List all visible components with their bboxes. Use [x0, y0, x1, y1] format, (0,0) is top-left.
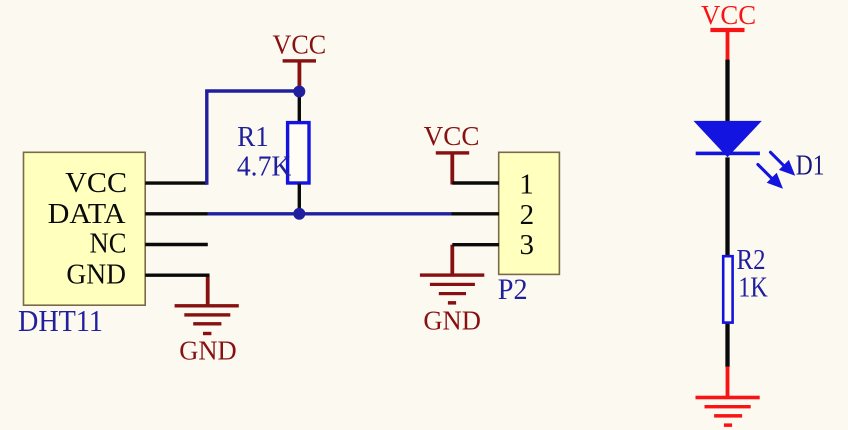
- power port VCC (P2, dark red): [424, 121, 480, 184]
- svg-text:D1: D1: [796, 150, 825, 182]
- svg-text:GND: GND: [179, 336, 237, 366]
- svg-text:GND: GND: [423, 305, 481, 335]
- svg-text:P2: P2: [498, 273, 528, 306]
- pin wire NC (DHT11 pin 3): [145, 243, 208, 246]
- DHT11 box: [24, 152, 146, 305]
- LED D1 triangle: [694, 121, 762, 157]
- junction node A: [293, 86, 305, 98]
- P2 box: [499, 152, 560, 274]
- svg-text:DHT11: DHT11: [18, 304, 103, 338]
- svg-text:VCC: VCC: [65, 167, 127, 199]
- svg-text:GND: GND: [66, 258, 126, 290]
- pin wire DATA (DHT11 pin 2): [145, 212, 208, 215]
- pin wire P2-2: [452, 212, 500, 215]
- pin wire GND (DHT11 pin 4): [145, 274, 209, 277]
- resistor R2: [723, 256, 732, 322]
- svg-text:NC: NC: [90, 228, 127, 260]
- LED arrow 1: [771, 152, 796, 176]
- wire LED cathode to R2: [725, 157, 729, 256]
- power port VCC (left, dark red): [273, 29, 327, 87]
- wire VCC to LED anode: [725, 60, 729, 122]
- ground (left, dark red): [175, 275, 239, 365]
- wire R1 bottom to data junction: [298, 184, 301, 214]
- svg-text:2: 2: [520, 199, 535, 231]
- wire R2 to ground: [725, 324, 729, 367]
- svg-text:4.7K: 4.7K: [237, 150, 291, 182]
- ground (right, bright red): [696, 367, 760, 427]
- resistor R1: [288, 123, 309, 183]
- LED D1 cathode bar: [696, 152, 760, 156]
- svg-text:1: 1: [519, 169, 534, 201]
- ground (P2, dark red): [420, 245, 484, 336]
- wire junction to R1 top: [298, 92, 301, 123]
- svg-text:R1: R1: [237, 121, 268, 153]
- pin wire P2-3: [452, 243, 499, 246]
- junction node DATA: [293, 208, 305, 220]
- svg-text:1K: 1K: [738, 272, 768, 304]
- pin wire P2-1: [452, 181, 499, 184]
- svg-text:DATA: DATA: [48, 198, 126, 230]
- svg-text:3: 3: [519, 229, 534, 261]
- pin wire VCC (DHT11 pin 1): [145, 181, 207, 184]
- svg-text:VCC: VCC: [273, 29, 327, 59]
- LED arrow 2: [758, 165, 783, 189]
- wire blue from VCC pin up to junction: [207, 91, 295, 185]
- power port VCC (right, bright red): [701, 0, 756, 60]
- svg-text:VCC: VCC: [701, 0, 756, 30]
- wire data bus blue: [208, 212, 452, 215]
- svg-text:VCC: VCC: [424, 121, 480, 151]
